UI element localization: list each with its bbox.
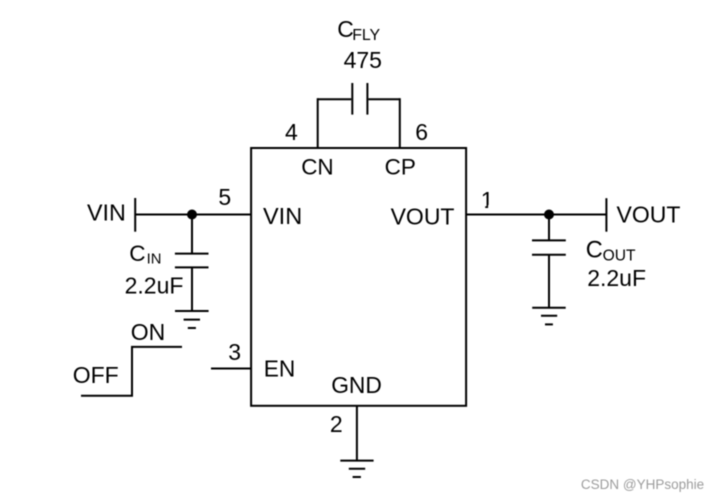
svg-text:2.2uF: 2.2uF: [587, 265, 646, 291]
svg-text:VOUT: VOUT: [391, 204, 455, 230]
svg-text:2: 2: [330, 411, 343, 437]
svg-text:GND: GND: [331, 372, 382, 398]
svg-text:C: C: [129, 241, 145, 266]
svg-text:CSDN @YHPsophie: CSDN @YHPsophie: [581, 477, 704, 492]
svg-text:OUT: OUT: [603, 248, 636, 265]
svg-text:5: 5: [218, 184, 231, 210]
svg-text:VIN: VIN: [263, 203, 302, 229]
svg-text:CP: CP: [385, 155, 416, 180]
svg-text:2.2uF: 2.2uF: [125, 272, 184, 298]
svg-text:EN: EN: [264, 355, 296, 381]
svg-text:475: 475: [344, 47, 382, 73]
svg-text:4: 4: [285, 119, 298, 145]
svg-text:C: C: [586, 238, 603, 264]
svg-text:OFF: OFF: [73, 362, 119, 388]
svg-text:IN: IN: [147, 251, 162, 267]
svg-text:VIN: VIN: [87, 200, 126, 226]
svg-text:CN: CN: [301, 155, 334, 180]
svg-text:VOUT: VOUT: [617, 202, 681, 228]
svg-text:6: 6: [415, 119, 428, 145]
svg-text:3: 3: [228, 339, 241, 365]
svg-text:FLY: FLY: [352, 27, 380, 44]
svg-text:ON: ON: [131, 319, 166, 345]
